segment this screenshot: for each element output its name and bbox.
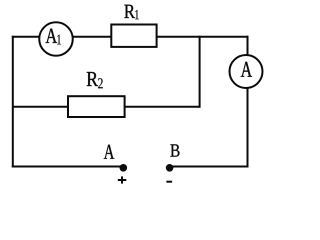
ammeter A circle [230, 55, 263, 88]
wire: R2 branch horizontal [13, 106, 200, 108]
resistor R2 [68, 72, 125, 117]
label R1: R [124, 5, 135, 18]
resistor R1 [111, 5, 156, 47]
ammeter A1 subscript 1 [57, 35, 60, 45]
wire: top horizontal bus [12, 36, 249, 38]
wire: right vertical [247, 36, 249, 168]
minus sign [166, 181, 172, 183]
terminal B dot [166, 164, 174, 172]
terminal A dot [120, 164, 128, 172]
wire: bottom left to terminal A [12, 166, 123, 168]
resistor R1 body [111, 25, 156, 47]
wire: left vertical [12, 36, 14, 168]
ammeter A [230, 55, 263, 88]
ammeter A1 letter A [46, 29, 58, 43]
label R1: subscript 1 [135, 10, 138, 19]
resistor R2 body [68, 96, 125, 117]
terminal A (+) [104, 145, 127, 184]
ammeter A letter A [241, 62, 252, 77]
label R2: R [87, 72, 98, 86]
ammeter A1 [39, 22, 73, 56]
wire: R2 branch riser to top bus [199, 36, 201, 108]
label R2: subscript 2 [98, 78, 103, 88]
ammeter A1 circle [39, 22, 73, 56]
terminal label B [170, 144, 179, 156]
terminal label A [104, 145, 114, 159]
terminal B (-) [166, 144, 180, 181]
plus sign [118, 179, 127, 181]
wire: bottom right from terminal B [170, 166, 249, 168]
